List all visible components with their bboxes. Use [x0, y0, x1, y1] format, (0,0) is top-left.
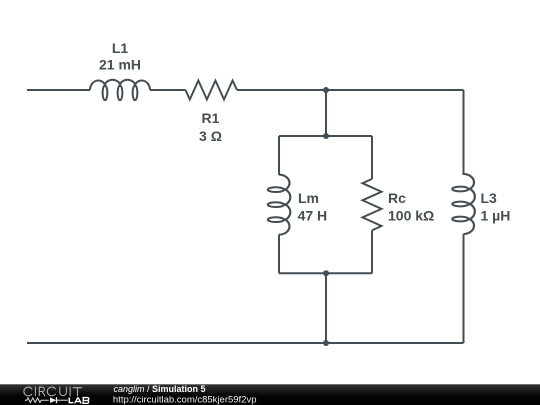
svg-text:47 H: 47 H	[298, 208, 328, 224]
wire: right edge lower segment	[463, 234, 465, 343]
svg-text:L1: L1	[112, 40, 129, 56]
node C junction dot (326,273.3)	[323, 270, 329, 276]
wire: box right edge lower segment	[371, 230, 373, 273]
node A junction dot (326,90)	[323, 87, 329, 93]
inductor Lm	[268, 175, 290, 235]
wire: box left edge lower segment	[278, 235, 280, 274]
resistor Rc	[363, 179, 382, 231]
node B junction dot (326,136)	[323, 133, 329, 139]
svg-text:canglim / Simulation 5: canglim / Simulation 5	[114, 384, 206, 394]
wire: parallel box top rail	[279, 135, 372, 137]
CircuitLab logo: LAB lettering	[69, 398, 89, 404]
wire: box bottom to bottom rail	[325, 273, 327, 343]
svg-text:Lm: Lm	[298, 190, 319, 206]
svg-text:L3: L3	[481, 190, 498, 206]
wire: bottom rail	[27, 342, 464, 344]
inductor L3	[452, 174, 474, 234]
wire: top-left lead to L1	[27, 89, 90, 91]
svg-text:R1: R1	[202, 110, 220, 126]
CircuitLab logo: CIRCUIT outline lettering	[24, 387, 82, 396]
wire: R1 to node A and on to right corner	[237, 89, 464, 91]
inductor L1	[90, 80, 150, 100]
svg-text:http://circuitlab.com/c85kjer5: http://circuitlab.com/c85kjer59f2vp	[113, 395, 257, 405]
wire: node A down to box top	[325, 90, 327, 136]
svg-text:1 µH: 1 µH	[481, 208, 511, 224]
wire: parallel box bottom rail	[279, 272, 372, 274]
svg-text:21 mH: 21 mH	[99, 57, 141, 73]
resistor R1	[186, 81, 238, 100]
svg-text:Rc: Rc	[388, 190, 406, 206]
CircuitLab logo: mini diode	[50, 397, 68, 403]
CircuitLab logo: mini resistor zigzag	[25, 398, 49, 403]
wire: box right edge upper segment	[371, 136, 373, 179]
svg-text:100 kΩ: 100 kΩ	[388, 208, 434, 224]
wire: box left edge upper segment	[278, 136, 280, 175]
wire: right edge upper segment	[463, 90, 465, 175]
wire: L1 to R1	[150, 89, 186, 91]
svg-text:3 Ω: 3 Ω	[199, 128, 222, 144]
node D junction dot (326,343)	[323, 340, 329, 346]
